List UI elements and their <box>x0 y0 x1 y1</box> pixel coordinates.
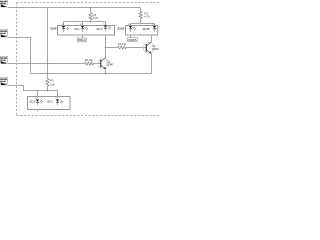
LED box1 outline <box>58 26 115 36</box>
svg-text:LED_MODE: LED_MODE <box>117 28 125 31</box>
wire from collector node to R4 <box>106 47 118 49</box>
junction dot node B (47,73.5) <box>47 73 49 75</box>
svg-text:BC847: BC847 <box>152 47 160 51</box>
wire net VCC top rail <box>8 7 141 9</box>
wire emitter return rail <box>31 73 152 75</box>
svg-text:BC847: BC847 <box>107 63 115 67</box>
resistor R4 (horizontal) <box>118 46 127 49</box>
junction dot R1 leg on bus1 <box>90 21 92 23</box>
svg-text:R5 10k: R5 10k <box>85 58 94 62</box>
connector J1 (top left off-page connector) <box>0 0 8 7</box>
wire Q1 collector riser from box1 LED D3 cathode <box>105 35 107 58</box>
transistor Q1 (NPN BC847) <box>98 58 109 69</box>
wire bus drop to D3 <box>105 22 107 26</box>
wire anode bus above LED box1 <box>64 21 106 23</box>
junction dot at R1 top on VCC rail <box>90 7 92 9</box>
net label flag PWM_A under box1 <box>77 38 86 42</box>
sheet frame dashed top border <box>17 2 161 4</box>
wire from J2 <box>8 38 31 74</box>
wire anode bus above LED box2 <box>131 23 155 25</box>
resistor R5 (horizontal, Q1 base) <box>85 62 95 65</box>
junction dot node C (47,90.6) <box>47 90 49 92</box>
wire Q2 emitter down to return rail <box>151 53 153 73</box>
wire stub below box2 LED D4 cathode <box>130 35 132 38</box>
wire bus drop to D2 <box>82 22 84 26</box>
wire stub into box3 LED D6 anode <box>37 91 39 97</box>
wire bus drop to D4 <box>130 24 132 26</box>
junction dot R2 leg on bus2 <box>140 23 142 25</box>
wire Q2 collector to box2 LED D5 cathode <box>151 35 153 42</box>
svg-text:PWM_A: PWM_A <box>78 38 86 42</box>
svg-text:R4 10k: R4 10k <box>118 42 127 46</box>
svg-text:4.7k: 4.7k <box>144 15 150 19</box>
wire from R5 to Q1 base <box>95 63 102 65</box>
connector J2 (second off-page connector) <box>0 30 8 37</box>
resistor R1 (vertical, from VCC rail) <box>89 8 92 22</box>
junction dot Q1 emitter on rail <box>105 73 107 75</box>
wire bus drop to D1 <box>63 22 65 26</box>
wire stub below box1 LED D2 cathode <box>82 35 84 38</box>
wire vertical rail from VCC to R3 <box>47 8 49 79</box>
svg-text:LED_G: LED_G <box>47 100 53 103</box>
svg-text:LED_B: LED_B <box>96 28 103 31</box>
resistor R2 (vertical, top right) <box>139 8 142 24</box>
wire stub below box3 <box>37 110 39 112</box>
wire bus drop to D5 <box>154 24 156 26</box>
LED D1 <box>62 26 69 32</box>
LED D7 <box>56 99 63 105</box>
LED box3 outline <box>28 97 71 110</box>
LED D6 <box>36 99 43 105</box>
wire Q1 emitter to return rail <box>105 69 107 74</box>
resistor R3 (vertical) <box>46 79 49 87</box>
LED D2 <box>81 26 88 32</box>
junction dot collector node (105.3,47.6) <box>105 47 107 49</box>
transistor Q2 (NPN BC847) <box>143 42 154 53</box>
connector J4 (fourth off-page connector) <box>0 78 8 85</box>
connector J3 (third off-page connector) <box>0 57 8 64</box>
net label flag PWM_B under box2 <box>128 38 138 42</box>
LED D4 <box>129 26 136 32</box>
LED D5 <box>153 26 158 32</box>
wire from J4 to LED box3 <box>8 86 58 97</box>
LED box2 outline <box>126 26 158 36</box>
svg-text:LED_R: LED_R <box>29 100 36 103</box>
sheet frame dashed bottom border <box>17 115 161 117</box>
sheet frame dashed left border <box>16 3 18 116</box>
LED D3 <box>104 26 111 32</box>
svg-text:PWM_B: PWM_B <box>128 38 136 42</box>
wire from J3 to base resistor R5 <box>8 63 85 65</box>
svg-text:LED_STAT: LED_STAT <box>143 28 151 31</box>
svg-text:LED_PWR: LED_PWR <box>50 28 57 31</box>
svg-text:4.7k: 4.7k <box>93 16 99 20</box>
svg-text:10k: 10k <box>50 83 55 87</box>
svg-text:LED_A: LED_A <box>74 28 80 31</box>
junction dot node A (47,63.6) <box>47 63 49 65</box>
wire from R4 to Q2 base <box>127 47 147 49</box>
wire from R3 into bus above box3 <box>47 86 49 91</box>
